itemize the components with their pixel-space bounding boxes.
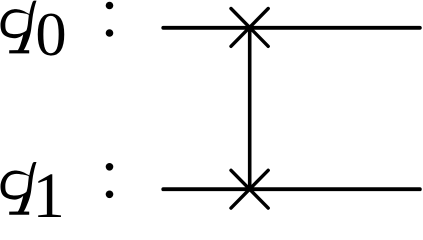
wire q0: [163, 26, 420, 30]
svg-text:1: 1: [33, 159, 65, 217]
qubit label q0: [1, 0, 67, 69]
wire q1: [163, 187, 420, 191]
colon after q0: [106, 2, 114, 37]
svg-text:0: 0: [35, 0, 66, 69]
qubit label q1: [1, 159, 65, 231]
swap gate cross on q1: [231, 170, 268, 208]
swap gate cross on q0: [231, 9, 268, 47]
colon after q1: [106, 163, 114, 198]
swap vertical connector: [248, 28, 252, 189]
